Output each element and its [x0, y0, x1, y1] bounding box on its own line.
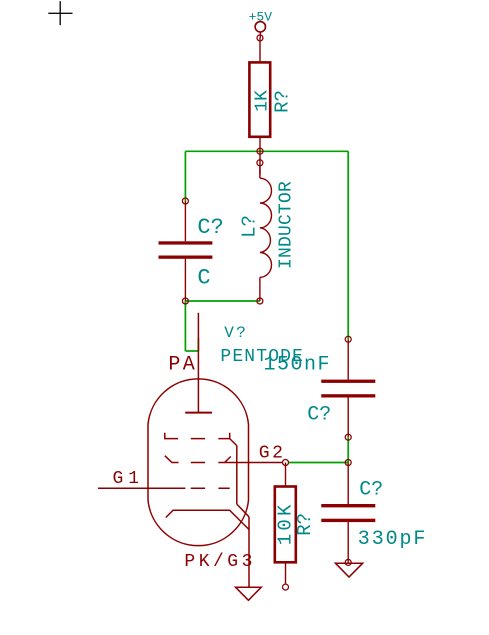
svg-text:C?: C? [307, 403, 331, 426]
wire: C? bottom down to anode level [184, 301, 186, 351]
resistor R? 1K [249, 38, 293, 175]
node R bottom pin [257, 148, 263, 154]
wire: right rail to 150nF top [347, 151, 349, 339]
node 150nF top pin [345, 336, 351, 342]
wire: short vertical up PA pin [197, 338, 199, 351]
inductor L? [260, 166, 272, 301]
wire [185, 151, 348, 462]
capacitor C? 330pF [321, 463, 427, 563]
node G2 junction [283, 460, 289, 466]
svg-text:C?: C? [359, 479, 383, 502]
svg-text:G2: G2 [259, 443, 286, 463]
pin end circles [182, 35, 351, 590]
grid g2 row [165, 456, 283, 463]
node 10K bottom open pin [283, 584, 289, 590]
wire: 150nF bottom to junction [347, 437, 349, 462]
grid g3 row [165, 433, 249, 517]
node L bottom pin [257, 298, 263, 304]
svg-text:C?: C? [197, 215, 223, 240]
power +5V [249, 9, 273, 38]
svg-text:C: C [197, 265, 210, 290]
pin PK/G3 [248, 517, 250, 587]
wire: left drop to C? top [184, 151, 186, 201]
svg-text:R?: R? [271, 90, 293, 113]
pentode V? [98, 313, 283, 587]
node C bottom pin [182, 298, 188, 304]
node +5V/R junction [257, 35, 263, 41]
capacitor C? 150nF [264, 339, 376, 437]
capacitor C? (left, value C) [159, 201, 224, 301]
wire: short horizontal into PA pin [185, 350, 198, 352]
node 330pF bottom pin [345, 559, 351, 565]
node 150nF bottom pin [345, 434, 351, 440]
wire: C? bottom to inductor bottom [185, 300, 260, 302]
svg-text:330pF: 330pF [358, 528, 428, 551]
node 330pF top junction [345, 460, 351, 466]
wire: top horizontal bus y=151 [185, 150, 348, 152]
cathode [166, 510, 249, 529]
resistor R? 10K [274, 463, 316, 585]
svg-text:PA: PA [168, 353, 197, 376]
ground (330pF) [335, 563, 362, 577]
svg-text:V?: V? [224, 324, 248, 342]
svg-text:R?: R? [294, 513, 316, 536]
svg-text:PK/G3: PK/G3 [184, 552, 256, 572]
pin PA [197, 313, 199, 413]
svg-text:G1: G1 [113, 469, 145, 489]
envelope [148, 379, 249, 546]
node L top pin [257, 160, 263, 166]
svg-text:INDUCTOR: INDUCTOR [276, 181, 296, 269]
svg-text:150nF: 150nF [264, 354, 332, 377]
ground (PK/G3) [236, 587, 262, 600]
grid g1 row [98, 487, 230, 489]
svg-text:1K: 1K [252, 90, 272, 112]
sheet origin cross [48, 1, 72, 25]
node C top pin [182, 198, 188, 204]
wire: G2 to right rail [288, 462, 348, 464]
anode bar [185, 412, 212, 414]
svg-text:L?: L? [239, 215, 261, 238]
